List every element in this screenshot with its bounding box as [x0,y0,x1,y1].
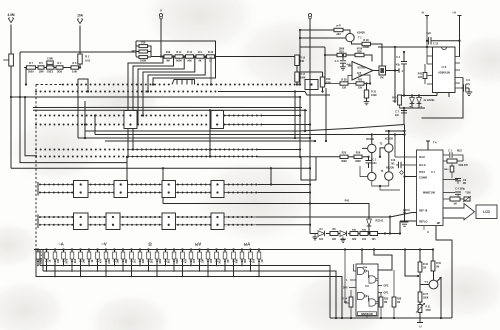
wire opamp inputs [348,66,352,84]
svg-text:КС236: КС236 [386,166,394,170]
svg-text:9К: 9К [199,59,202,62]
svg-text:RZ141: RZ141 [376,219,384,223]
svg-text:15К: 15К [358,87,363,90]
resistor R43 [330,232,338,236]
wire R25-R26 [348,156,354,158]
capacitor C4 47n [403,52,405,62]
wire R15-R17 [296,66,298,73]
svg-text:1М0: 1М0 [83,258,86,263]
wafer C row 2 contacts [35,156,258,158]
resistor R3 [47,66,55,69]
svg-text:LСD: LСD [483,210,490,214]
wire J2 down [79,26,81,55]
svg-text:-1: -1 [401,70,404,73]
svg-text:47p: 47p [466,83,471,86]
wire input chain [24,67,80,69]
wire wafer C to base row [258,156,340,158]
svg-text:1М5: 1М5 [326,82,331,85]
svg-text:R 24: R 24 [342,298,348,301]
wire divider tap bus 5 [148,57,205,92]
capacitor C7 22n [401,111,407,113]
svg-text:1К: 1К [49,259,52,262]
wire opamp output [373,70,395,72]
svg-text:180К: 180К [423,298,429,300]
svg-text:М1: М1 [391,163,395,165]
gate U2a [358,267,365,274]
wafer B wiper box 2 [211,111,224,129]
wire R22 to T1 [343,30,350,33]
wafer C right wires [258,97,300,157]
svg-text:R 7: R 7 [29,62,34,65]
svg-text:RЕF НI: RЕF НI [419,210,428,213]
diode D3 KA091 [418,96,420,98]
wafer D wiper box 3 [162,181,176,198]
svg-text:22R: 22R [142,259,145,264]
wire net C (y110) [33,109,307,111]
svg-text:47К: 47К [100,258,103,263]
input terminal J4 [308,14,311,17]
ground below R32 [364,102,370,105]
wire U2 left pins [349,280,356,288]
wire output tick [395,68,399,73]
svg-text:47μ: 47μ [396,64,401,67]
wire U3 right loop [422,78,464,119]
capacitor C10 M1 [399,162,402,169]
transistor T3 KC239 [368,144,376,152]
fuse FU1 [9,54,14,66]
resistor R11 [175,55,183,58]
wire osc top [300,29,334,31]
gate U2b [369,276,376,283]
wire T5 feeds [420,250,433,263]
wire opamp rail [300,47,325,84]
IC U3 regulator [433,47,456,93]
wafer D wiper box 4 [211,181,224,198]
wire U2 right pins [378,286,382,293]
svg-text:1М: 1М [453,203,456,206]
svg-text:Т3: Т3 [380,144,383,146]
wire net L4 (y141) [105,140,315,142]
svg-text:ЗК9: ЗК9 [352,238,357,241]
svg-text:R 37: R 37 [423,294,429,296]
svg-text:Т10К: Т10К [465,193,471,195]
svg-text:470К: 470К [426,309,432,312]
svg-text:1М: 1М [397,302,400,304]
svg-text:4М7: 4М7 [125,258,128,263]
wire top rail x395 [378,47,433,103]
svg-text:4.0М: 4.0М [7,13,14,17]
resistor R47 [370,232,378,236]
op-amp IC2 B176D [352,62,373,81]
capacitor C1 22n [368,157,370,160]
IC U3 left pins [427,19,433,84]
wafer E wiper box 1b [106,213,120,230]
svg-text:RЕFLО: RЕFLО [419,221,428,224]
svg-text:R 5: R 5 [39,62,44,65]
svg-text:900К: 900К [176,59,182,62]
resistor R9 [196,55,204,58]
svg-text:47К: 47К [185,258,188,263]
svg-text:R18: R18 [339,51,344,54]
diode D4 [318,231,325,237]
wafer A row 2 contacts [35,91,216,93]
resistor R30f [340,82,348,85]
resistor R4 [71,66,79,69]
svg-text:С 1: С 1 [448,150,452,153]
wafer B row 2 contacts [35,124,262,126]
svg-text:R41: R41 [345,199,350,203]
wire logic top feeds [362,250,392,271]
wire corner loop [301,157,316,180]
wire divider row [151,56,297,58]
wire R29 to crystal [371,44,383,66]
capacitor C6 [342,55,344,60]
wafer D right wires [258,185,310,193]
wire T4 leads [380,131,389,172]
svg-text:190М: 190М [140,60,146,63]
crystal PK [379,66,386,75]
svg-text:М22: М22 [159,258,162,263]
wafer E row 1 contacts [39,216,253,218]
range resistor bank [36,248,264,277]
svg-text:ММ87106: ММ87106 [423,191,435,195]
svg-text:10R: 10R [202,259,205,264]
wafer D wiper box 1 [74,181,89,198]
svg-text:R 3: R 3 [73,62,78,65]
terminal -U bottom [417,313,423,323]
svg-text:47К: 47К [392,100,397,103]
wire REFLO entry [400,221,417,234]
diode D2 KA091 [411,96,413,98]
wire range bus 1 [40,250,330,319]
wafer D row 2 contacts [39,192,257,194]
wire link U-structure [78,79,88,138]
wafer D left bracket [37,182,39,196]
svg-text:R 10: R 10 [208,51,214,54]
svg-text:-U: -U [421,11,424,15]
resistor R29 [362,42,371,45]
wire diode bottom bus [400,108,426,111]
svg-text:D 12: D 12 [187,51,193,54]
svg-text:СОММ: СОММ [419,177,427,180]
svg-text:2x КА091: 2x КА091 [424,99,436,102]
svg-text:1К1: 1К1 [134,258,137,263]
wire R26 to C1 node [362,156,369,158]
svg-text:С 4: С 4 [396,56,400,59]
wire ref vert x390 [389,217,391,234]
wire pair emitters [380,186,400,190]
svg-text:Т 5: Т 5 [424,281,428,284]
terminal +U [458,16,462,41]
svg-text:Т6: Т6 [381,171,384,173]
wafer E wiper box 3 [211,213,224,230]
svg-text:22n: 22n [395,114,400,117]
wire rotary shaft (dashed) [35,85,37,249]
svg-text:С10: С10 [391,159,396,162]
svg-text:4К7: 4К7 [131,50,136,53]
svg-text:D4: D4 [320,228,324,231]
resistor R36 47K [443,160,447,162]
capacitor C3 M1 [443,179,455,181]
input terminal J2 (10A) [77,19,82,24]
svg-text:w-Р: w-Р [336,25,341,28]
resistor stack Ra [139,45,148,48]
transistor T1 KC420 [346,33,354,41]
resistor R13 [164,55,172,58]
wire x405 down [404,131,406,190]
wafer A wiper box [305,80,318,90]
svg-text:R42: R42 [418,73,423,76]
svg-text:М22: М22 [457,150,462,153]
wire IN HI [395,135,417,158]
resistor R26 900K [354,155,362,158]
resistor R19 [297,72,323,77]
wire chain stubs down [25,68,37,156]
wafer D row 1 contacts [39,184,257,186]
svg-text:FU1: FU1 [4,58,10,62]
svg-text:R25: R25 [342,152,347,155]
wire range top bus [34,249,433,251]
svg-text:1М: 1М [384,302,387,304]
svg-text:1М: 1М [436,267,439,269]
wire base row R25 R26 [339,156,341,158]
svg-text:10М: 10М [39,71,44,74]
svg-text:R13: R13 [166,51,171,54]
svg-text:10A: 10A [77,14,84,18]
wafer A row 2 wire [218,92,330,96]
svg-text:R 31: R 31 [426,307,432,309]
svg-text:Ω: Ω [148,242,152,247]
wire divider tap bus 6 [153,57,216,85]
svg-text:IN LO: IN LO [419,164,426,167]
wafer A comb link [172,80,195,85]
resistor R32 100K [366,84,368,91]
svg-text:1М: 1М [423,268,426,270]
input terminal J1 (4.0M) [8,18,13,23]
wire U2 outer loop [345,250,349,304]
wire LCD bus [443,208,446,218]
svg-text:R28: R28 [397,299,402,301]
diode D1 RZ141 [367,219,372,226]
wire divider tap bus 3 [138,57,184,125]
wire U3 bottom net [400,93,450,98]
wire R17 down [296,82,298,85]
svg-text:22К: 22К [418,77,423,79]
wire T5 emitter [437,278,441,318]
svg-text:10К: 10К [57,258,60,263]
wire net L3 (y138) [78,137,310,139]
svg-text:~А: ~А [58,242,63,247]
wire COMM [405,176,417,178]
svg-text:R45: R45 [352,228,357,231]
svg-text:R 32: R 32 [423,264,429,266]
wire L1 x389 junction [385,130,405,132]
wire net A (y97) [11,96,300,98]
svg-text:IN НI: IN НI [419,156,425,159]
wire divider tap bus 1 [128,57,163,157]
svg-text:ωV: ωV [195,242,202,247]
svg-text:V: V [160,9,162,13]
wafer B right wires [262,116,310,125]
svg-text:R 9: R 9 [198,51,203,54]
resistor R5 [38,66,44,69]
svg-text:360: 360 [332,238,337,241]
svg-text:1К0: 1К0 [193,258,196,263]
svg-text:1786: 1786 [47,57,53,61]
resistor R26b 1M [379,297,383,307]
svg-text:1/16: 1/16 [141,41,146,44]
wire osc rail [299,30,301,85]
gate U2d [369,299,376,306]
wafer A row 1 dashes [36,84,62,86]
svg-text:15К: 15К [342,87,347,90]
svg-text:С 4 100μ: С 4 100μ [455,187,465,190]
svg-text:1М: 1М [344,302,347,304]
transistor T5a KC236 [368,172,376,180]
wafer A row 1 contacts [62,84,170,86]
svg-text:GР1: GР1 [384,292,389,295]
svg-text:R 2: R 2 [58,62,63,65]
svg-text:1К5: 1К5 [371,238,376,241]
wire top loop [11,52,310,185]
svg-text:GР2: GР2 [384,285,389,288]
wire net L2 (y134.5) [95,134,405,136]
svg-text:0.01: 0.01 [85,59,91,63]
wire feedback row [325,75,370,84]
svg-text:100К: 100К [371,94,377,97]
resistor R32b 1M [418,262,422,272]
input terminal J3 (V) [159,14,162,17]
wire opamp top net [325,55,372,62]
wire ohm reference (y205) [163,198,369,220]
capacitor C2 M22 loop [443,154,449,156]
resistor R42 22K [423,73,427,79]
svg-text:ММ5834В: ММ5834В [361,313,373,316]
wafer E left bracket [37,215,39,229]
svg-text:90R: 90R [236,259,239,264]
wire mid vertical x326 [325,88,327,141]
ground COMM [401,222,409,226]
wire net B (y107.5) [33,106,302,108]
resistor R37 180K [418,292,422,302]
svg-text:R31: R31 [358,79,363,82]
svg-text:1М8: 1М8 [117,258,120,263]
svg-text:R35: R35 [357,51,362,54]
svg-text:9К: 9К [91,259,94,262]
svg-text:10К: 10К [300,60,305,63]
wire T1 emitter [352,41,363,44]
ground D5 [342,237,344,240]
wire range bus 2 [43,250,336,319]
svg-text:22n: 22n [373,162,378,165]
wire T1 base [300,37,346,39]
svg-text:~V: ~V [101,242,106,247]
resistor R31f [356,82,364,85]
wire R1 to chain [79,64,81,68]
capacitor C12 2u0 [427,40,429,42]
svg-text:1С5: 1С5 [357,72,362,75]
wire range bus 3 [36,248,342,318]
wire T5 base [405,250,429,293]
wafer E wiper box 1 [74,213,89,230]
svg-text:1R0: 1R0 [210,258,213,263]
svg-text:9: 9 [427,230,429,234]
svg-text:КС239: КС239 [366,137,374,141]
wire mid vertical x295 [294,92,296,139]
svg-text:1R: 1R [261,259,264,262]
svg-text:U 1: U 1 [431,170,436,174]
svg-text:R 30: R 30 [436,263,442,265]
wire wafer C link x127 [126,157,128,181]
resistor R2 [56,66,63,69]
svg-text:РК: РК [380,75,384,79]
terminal +U top of U1 [426,141,430,150]
svg-text:90К: 90К [187,59,192,62]
wafer E wiper box 2 [162,213,176,230]
wire T5 collector [433,271,435,280]
wire ref row [310,233,400,235]
resistor R7 [27,66,36,69]
wire net L1 (y131) [85,108,404,131]
transistor T4 KC239 [385,144,393,152]
resistor R1 0.01 shunt [78,54,82,64]
svg-text:КЗ420: КЗ420 [357,31,365,35]
wire T5a leads [360,166,389,186]
svg-text:М10: М10 [219,258,222,263]
svg-text:R46: R46 [362,228,367,231]
svg-text:ωА: ωА [244,242,251,247]
transistor T6 KC236 [385,172,393,180]
svg-text:1К2: 1К2 [319,238,324,241]
wafer D wiper box 2 [114,181,128,198]
ground right of C8 [468,88,470,92]
svg-text:R 11: R 11 [176,51,182,54]
svg-text:2К4: 2К4 [74,258,77,263]
wire stack connections [136,46,151,57]
svg-text:R26: R26 [356,152,361,155]
LCD box [476,205,497,219]
svg-text:R 1: R 1 [85,55,90,59]
svg-text:АD86АJN: АD86АJN [438,70,450,74]
svg-text:М78: М78 [66,258,69,263]
svg-text:С6Е2: С6Е2 [47,71,54,74]
resistor R40 47K [398,95,402,105]
svg-text:DР0: DР0 [343,288,348,290]
wire divider tap bus 4 [143,57,195,116]
IC U1 MM87106 [417,150,444,226]
svg-text:9R: 9R [227,259,230,262]
wire T3 leads [362,135,372,173]
display bus arrow [443,204,475,220]
svg-text:390К: 390К [176,258,179,264]
resistor R38 1M [450,197,460,201]
svg-text:R26: R26 [384,299,389,301]
svg-text:С 9: С 9 [466,79,470,82]
svg-text:R8: R8 [333,229,337,231]
wire +U to IC [459,41,461,57]
wire J1 down [10,25,12,55]
wafer B wiper box 1 [124,111,137,129]
wafer C row 1 contacts [35,149,258,151]
resistor stack Rb [139,50,148,53]
svg-text:U 3: U 3 [442,65,447,69]
trimmer T10K [464,197,470,201]
wire loop to divider [20,41,216,57]
svg-text:100К: 100К [300,77,306,80]
IC U2 box [356,264,378,316]
wire fuse to node [10,66,12,168]
svg-text:+U: +U [452,11,456,15]
